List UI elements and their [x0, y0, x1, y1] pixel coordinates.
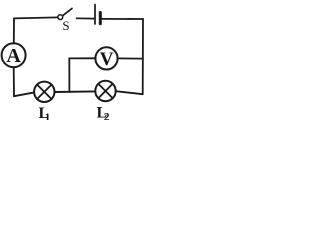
- svg-text:1: 1: [45, 112, 51, 121]
- svg-text:V: V: [100, 49, 114, 70]
- svg-text:2: 2: [104, 112, 110, 121]
- svg-text:A: A: [6, 45, 21, 67]
- svg-text:S: S: [62, 18, 69, 33]
